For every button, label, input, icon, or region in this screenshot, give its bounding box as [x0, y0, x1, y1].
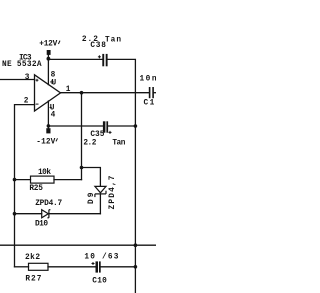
wire C35 to vertical rail [108, 125, 135, 127]
op-amp + input mark [36, 79, 39, 82]
junction C35 rail node [134, 124, 138, 128]
wire C38 to vertical rail [108, 59, 136, 293]
zener diode D10 [42, 210, 51, 218]
svg-text:D10: D10 [35, 221, 48, 229]
capacitor C14 10n [149, 87, 154, 98]
svg-text:+12V: +12V [39, 40, 57, 48]
svg-text:R25: R25 [29, 185, 43, 193]
wire op-amp pin 4 to -12V [47, 101, 49, 128]
capacitor C35 [103, 121, 108, 132]
wire pin3 input [0, 79, 35, 81]
junction D10 left node [13, 212, 17, 216]
wire R27 left [15, 266, 29, 268]
svg-text:4: 4 [51, 111, 56, 119]
svg-text:C14: C14 [144, 99, 157, 107]
svg-text:2.2: 2.2 [83, 139, 96, 147]
svg-text:10 /63: 10 /63 [84, 253, 118, 261]
wire output feedback vertical [81, 93, 83, 180]
capacitor C38 [102, 54, 107, 66]
junction output node [80, 91, 84, 95]
svg-text:1: 1 [66, 86, 71, 94]
junction R25 left node [13, 178, 17, 182]
svg-text:3: 3 [25, 74, 30, 82]
svg-text:-12V: -12V [36, 139, 55, 147]
wire D10 cathode to D9 [49, 213, 100, 215]
zener diode D9 [95, 186, 106, 197]
C10 plus mark [92, 262, 95, 265]
junction +12V node [47, 57, 51, 61]
svg-text:C10: C10 [92, 277, 107, 285]
wire op-amp output [61, 92, 149, 94]
junction C10 rail node [134, 265, 138, 269]
wire +12V to op-amp pin 8 [47, 55, 49, 85]
C38 plus mark [98, 55, 101, 58]
resistor R25 [31, 176, 55, 183]
wire C10 to rail [101, 266, 136, 268]
junction feedback/zener node [80, 166, 84, 170]
svg-text:2k2: 2k2 [25, 254, 40, 262]
op-amp - input mark [36, 103, 39, 105]
svg-text:+U: +U [50, 79, 57, 87]
svg-text:10n: 10n [140, 75, 157, 83]
capacitor C10 [96, 261, 101, 272]
wire +12V branch to C38 [48, 58, 102, 60]
svg-text:R27: R27 [25, 275, 41, 283]
svg-text:C38: C38 [90, 42, 106, 50]
svg-text:Tan: Tan [112, 140, 125, 148]
-12V supply symbol [46, 128, 50, 133]
svg-text:2: 2 [24, 98, 29, 106]
svg-text:ZPD4,7: ZPD4,7 [109, 175, 117, 209]
wire R25 right to feedback [54, 179, 82, 181]
wire branch to D9 [82, 168, 101, 187]
+12V tick [58, 41, 60, 44]
resistor R27 [29, 263, 49, 270]
wire -12V branch to C35 [48, 125, 103, 127]
svg-text:NE 5532A: NE 5532A [2, 61, 42, 69]
junction bottom rail node [134, 243, 138, 247]
svg-text:ZPD4.7: ZPD4.7 [35, 200, 62, 208]
-12V tick [56, 138, 58, 141]
wire D9 cathode down [99, 194, 101, 214]
svg-text:8: 8 [51, 71, 56, 79]
wire R27 to C10 [48, 266, 96, 268]
wire D10 anode [15, 213, 42, 215]
op-amp IC3 triangle [35, 75, 61, 111]
svg-text:10k: 10k [38, 169, 51, 177]
wire pin2 input [15, 105, 35, 267]
junction -12V node [47, 124, 51, 128]
svg-text:D9: D9 [88, 192, 96, 204]
svg-text:C35: C35 [90, 131, 104, 139]
svg-text:Tan: Tan [105, 36, 121, 44]
wire C14 to right edge [154, 92, 156, 94]
wire R25 left [15, 179, 31, 181]
C35 plus mark [109, 131, 112, 134]
wire bottom rail [0, 244, 156, 246]
+12V supply symbol [47, 50, 51, 55]
